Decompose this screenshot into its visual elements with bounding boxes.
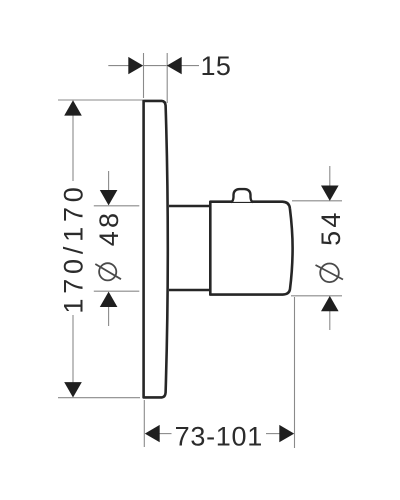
extension tick lower for dia48 (y=291.2) <box>94 290 140 292</box>
dim 170/170 line upper segment <box>72 114 74 181</box>
extension line bottom-right vertical (x=294.5) <box>294 297 296 448</box>
dim dia54 arrow up <box>321 296 339 311</box>
dim dia48 label diameter slash <box>95 264 121 279</box>
knob top button <box>231 189 252 202</box>
extension tick upper for dia48 (y=205.8) <box>94 205 140 207</box>
svg-text:48: 48 <box>94 210 124 246</box>
dim 15 line right tail <box>181 65 199 67</box>
dim 170/170 arrow down <box>64 382 82 397</box>
dim 170/170 arrow up <box>64 100 82 115</box>
dim 73-101 arrow left <box>145 425 160 442</box>
valve neck sleeve bottom edge <box>169 289 210 291</box>
dim dia54 leader bottom <box>329 310 331 330</box>
handle knob body <box>210 202 292 295</box>
dim dia54 arrow down <box>321 186 339 201</box>
dim 73-101 line left tail <box>158 433 172 435</box>
svg-text:73-101: 73-101 <box>175 422 263 452</box>
valve neck sleeve top edge <box>169 205 210 207</box>
extension line left horizontal at plate bottom (y=397.7) <box>58 397 140 399</box>
extension line bottom-left vertical (x=144.3) <box>143 400 145 447</box>
extension line top-right vertical (x=167.2) <box>166 53 168 103</box>
dim dia54 label diameter slash <box>316 265 344 280</box>
dim dia48 label diameter circle <box>99 263 116 280</box>
dim dia48 arrow down <box>100 190 118 205</box>
extension line right horizontal at knob bottom (y=295.8) <box>291 295 342 297</box>
extension line top-left vertical (x=143.5) <box>143 53 145 98</box>
extension line right horizontal at knob top (y=200.8) <box>292 200 342 202</box>
svg-text:170/170: 170/170 <box>59 182 89 313</box>
dim 73-101 line right tail <box>266 433 281 435</box>
dim 73-101 arrow right <box>279 425 294 442</box>
dim dia48 leader top <box>108 171 110 191</box>
dim dia48 leader bottom <box>108 306 110 326</box>
dim dia54 label diameter circle <box>320 264 339 283</box>
escutcheon plate (side view) <box>144 101 168 398</box>
svg-text:54: 54 <box>316 209 346 245</box>
dim 15 line left tail <box>108 65 129 67</box>
dim 170/170 line lower segment <box>72 315 74 383</box>
svg-text:15: 15 <box>201 51 232 81</box>
dim 15 line middle <box>144 65 167 67</box>
extension line left horizontal at plate top (y=100) <box>58 99 143 101</box>
dim 15 arrow right <box>167 57 182 74</box>
dim dia54 leader top <box>329 166 331 187</box>
dim dia48 arrow up <box>100 292 118 307</box>
dim 15 arrow left <box>128 57 143 74</box>
